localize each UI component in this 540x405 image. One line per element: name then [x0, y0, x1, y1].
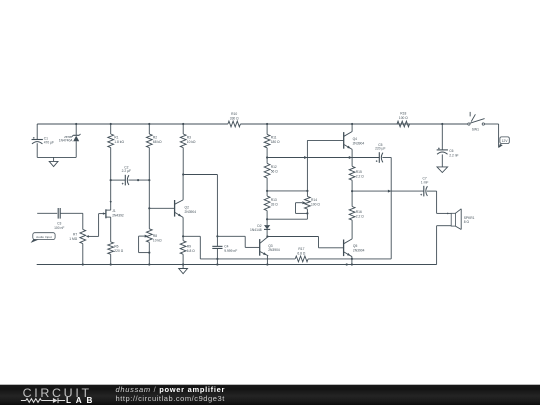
wire R2 down to R8	[148, 148, 150, 229]
diode D2 1N4148	[266, 219, 268, 225]
svg-text:8 Ω: 8 Ω	[464, 220, 470, 224]
switch SW1	[468, 123, 470, 125]
capacitor C1 (470 uF) branch	[36, 124, 38, 139]
flag Audio Input	[31, 239, 40, 243]
node dot R11/R12 junction	[266, 156, 268, 158]
wire C4 bottom to rail	[216, 249, 218, 265]
svg-text:68 kΩ: 68 kΩ	[153, 140, 162, 144]
capacitor C2 (2.2 uF)	[111, 179, 126, 181]
wire Q2 base	[149, 207, 174, 209]
speaker SPKR1 8 Ohm	[451, 213, 455, 226]
node dot R1 top	[110, 123, 112, 125]
svg-text:R11: R11	[271, 136, 277, 140]
resistor R17 (6.8 Ohm) on feedback line	[295, 256, 308, 262]
svg-text:6.8 Ω: 6.8 Ω	[297, 252, 305, 256]
svg-text:Q4: Q4	[353, 137, 358, 141]
node dot output tap R15/R16	[351, 190, 353, 192]
wire Q5 emitter down	[351, 257, 353, 265]
svg-text:100 nF: 100 nF	[54, 226, 64, 230]
node dot R3 top	[182, 123, 184, 125]
svg-text:12V: 12V	[502, 139, 509, 143]
node dot Q5 emitter/feedback	[351, 258, 353, 260]
node dot D2/Q3-collector node	[266, 235, 268, 237]
resistor R16 (2.2 Ohm)	[349, 207, 355, 221]
svg-text:R7: R7	[73, 232, 77, 236]
svg-text:2.2 Ω: 2.2 Ω	[356, 215, 364, 219]
ground symbol middle	[182, 265, 184, 269]
svg-text:2.2 Ω: 2.2 Ω	[356, 174, 364, 178]
node dot Q4 collector rail	[351, 123, 353, 125]
svg-text:2.2 µF: 2.2 µF	[122, 169, 131, 173]
svg-text:R1: R1	[114, 135, 118, 139]
resistor R6 (220 Ohm)	[108, 242, 114, 254]
svg-text:R9: R9	[187, 244, 191, 248]
svg-text:10 kΩ: 10 kΩ	[153, 238, 162, 242]
wire R11/R12 node to Q4 base vertical and C5	[267, 157, 379, 159]
svg-text:R6: R6	[114, 245, 118, 249]
svg-text:1N4148: 1N4148	[250, 228, 262, 232]
capacitor C5 (220 uF)	[378, 152, 380, 163]
svg-text:56 Ω: 56 Ω	[271, 170, 279, 174]
wire top supply rail middle segment	[240, 123, 467, 125]
transistor Q4 2N3904	[343, 132, 345, 149]
zener diode D1 1N4740A	[75, 124, 77, 135]
svg-text:100 Ω: 100 Ω	[311, 203, 320, 207]
capacitor C7 (1 mF)	[423, 186, 425, 197]
node dot R2/Q2-base junction	[148, 207, 150, 209]
resistor R12 (56 Ohm)	[264, 163, 270, 178]
svg-text:2N3904: 2N3904	[353, 141, 365, 145]
node dot C6 top rail	[441, 123, 443, 125]
ground symbol under C6	[441, 166, 443, 168]
wire Q4 collector to rail	[351, 124, 353, 132]
R8 wiper loop	[139, 235, 146, 237]
svg-text:R17: R17	[298, 247, 304, 251]
wire Q4 base	[307, 139, 343, 141]
svg-text:2.2 nF: 2.2 nF	[449, 153, 458, 157]
svg-text:R16: R16	[356, 210, 362, 214]
svg-text:D2: D2	[257, 224, 261, 228]
svg-text:C4: C4	[224, 244, 228, 248]
svg-text:1 MΩ: 1 MΩ	[69, 237, 77, 241]
svg-text:9.999 nF: 9.999 nF	[224, 249, 237, 253]
node dot zener-top rail	[75, 123, 77, 125]
node dot R13/D2 junction	[266, 218, 268, 220]
footer bar	[0, 385, 540, 405]
node dot R7 bottom rail	[82, 263, 84, 265]
resistor R10 (330 Ohm) on top rail	[228, 121, 241, 127]
svg-text:2N4392: 2N4392	[112, 214, 124, 218]
capacitor C6 (2.2 nF) branch	[441, 124, 443, 150]
node dot R14 loop bottom	[306, 212, 308, 214]
svg-text:C6: C6	[449, 149, 453, 153]
R14 wiper loop	[296, 202, 303, 204]
svg-text:R2: R2	[153, 135, 157, 139]
wire audio input to C3	[37, 212, 57, 214]
speaker plus marker dot	[447, 213, 449, 215]
wire top supply rail left segment	[37, 123, 228, 125]
svg-text:R18: R18	[400, 112, 406, 116]
svg-text:2N3904: 2N3904	[353, 249, 365, 253]
wire feedback from Q2 emitter	[183, 235, 200, 237]
node dot Q2-emitter/feedback	[182, 235, 184, 237]
wire C7 to speaker top	[436, 191, 438, 213]
capacitor C4 (9.999 nF)	[212, 245, 222, 247]
node dot R1/C2 junction	[110, 179, 112, 181]
svg-text:LAB: LAB	[66, 396, 97, 405]
wire R15 to R16 with output tap	[351, 180, 353, 206]
node dot Q3 emitter rail	[266, 263, 268, 265]
svg-text:http://circuitlab.com/c9dge3t: http://circuitlab.com/c9dge3t	[116, 394, 226, 403]
svg-text:180 Ω: 180 Ω	[271, 140, 280, 144]
svg-text:1.8 kΩ: 1.8 kΩ	[114, 140, 124, 144]
ground symbol under C1 loop	[53, 157, 55, 161]
wire speaker bottom return	[437, 225, 452, 227]
svg-text:Q5: Q5	[353, 244, 358, 248]
svg-text:100 Ω: 100 Ω	[399, 116, 408, 120]
svg-text:dhussam / power amplifier: dhussam / power amplifier	[116, 385, 226, 394]
svg-text:J1: J1	[112, 209, 116, 213]
svg-text:2N3904: 2N3904	[185, 210, 197, 214]
svg-text:220 Ω: 220 Ω	[114, 249, 123, 253]
potentiometer R8 (10 kOhm)	[146, 229, 152, 243]
resistor R1 (1.8 kOhm)	[110, 124, 112, 134]
node dot C2/R2 junction	[148, 179, 150, 181]
svg-text:SPKR1: SPKR1	[464, 216, 475, 220]
resistor R18 (100 Ohm) on top rail	[397, 121, 410, 127]
wire bottom rail	[37, 264, 437, 266]
voltage flag 12V	[498, 144, 502, 148]
transistor Q3 2N3904	[259, 239, 261, 256]
svg-text:470 µF: 470 µF	[44, 140, 54, 144]
node dot on C2 wire	[137, 179, 139, 181]
svg-text:R15: R15	[356, 170, 362, 174]
node dot on rail left of Q5	[346, 263, 348, 265]
svg-text:33 Ω: 33 Ω	[271, 202, 279, 206]
resistor R2 (68 kOhm)	[148, 124, 150, 134]
wire R12/R13 node to R14 top	[267, 190, 307, 192]
svg-text:6.8 Ω: 6.8 Ω	[187, 249, 195, 253]
resistor R15 (2.2 Ohm)	[349, 166, 355, 180]
wire feedback line to output node	[308, 258, 391, 260]
node dot R12/R13 junction	[266, 190, 268, 192]
node dot R8 bottom rail	[148, 263, 150, 265]
node dot R2 top	[148, 123, 150, 125]
svg-text:2N3904: 2N3904	[268, 248, 280, 252]
wire bottom of C1/zener loop	[37, 156, 76, 158]
wire D2 node to Q5 base	[267, 236, 318, 238]
wire Q4 emitter to R15	[351, 149, 353, 166]
node dot C4-top tap	[216, 235, 218, 237]
resistor R3 (10 kOhm)	[182, 124, 184, 134]
capacitor C3 (100 nF)	[57, 208, 59, 219]
svg-text:R12: R12	[271, 165, 277, 169]
wire Q2 emitter down to R9	[182, 217, 184, 240]
node dot R8 loop bottom	[148, 252, 150, 254]
node dot C4/bottom rail	[216, 263, 218, 265]
wire C5 to output vertical	[382, 157, 391, 159]
svg-text:10 kΩ: 10 kΩ	[187, 140, 196, 144]
JFET J1 2N4392	[105, 209, 107, 218]
node dot R11 top rail	[266, 123, 268, 125]
svg-text:R8: R8	[153, 234, 157, 238]
svg-text:330 Ω: 330 Ω	[230, 116, 239, 120]
svg-text:1N4740A: 1N4740A	[59, 139, 74, 143]
node dot C4/feedback line	[216, 258, 218, 260]
wire R1 down to JFET drain	[110, 148, 112, 211]
wire Q3 emitter to rail	[266, 256, 268, 265]
svg-text:C3: C3	[57, 222, 61, 226]
node dot R6 bottom rail	[110, 263, 112, 265]
wire R13/R14 bottoms	[267, 218, 307, 220]
wire output tap to C7 line	[352, 190, 424, 192]
wire J1 source to R6	[110, 217, 112, 242]
wire Q2 collector up	[182, 175, 184, 200]
node dot R3/Q2-collector/C4 junction	[182, 173, 184, 175]
wire R3 down to node	[182, 148, 184, 175]
svg-text:R3: R3	[187, 135, 191, 139]
svg-text:1 mF: 1 mF	[421, 180, 429, 184]
wire from SW1 to 12V flag	[484, 123, 498, 125]
transistor Q5 2N3904	[343, 240, 345, 257]
svg-text:Q3: Q3	[268, 244, 273, 248]
potentiometer R14 (100 Ohm)	[306, 140, 308, 196]
potentiometer R7 (1 MOhm)	[82, 213, 84, 229]
svg-text:R10: R10	[231, 112, 237, 116]
transistor Q2 2N3904	[174, 200, 176, 217]
wire R16 to Q5 collector	[351, 220, 353, 239]
wire C4 tap to Q3 base	[217, 235, 245, 237]
svg-text:R14: R14	[311, 198, 317, 202]
resistor R9 (6.8 Ohm)	[180, 241, 186, 255]
svg-text:Audio Input: Audio Input	[36, 235, 52, 239]
resistor R11 (180 Ohm)	[266, 124, 268, 134]
node dot Q5 emitter rail	[351, 263, 353, 265]
svg-text:R13: R13	[271, 198, 277, 202]
R7 wiper arm to J1 gate	[88, 235, 98, 237]
node dot R9 bottom rail	[182, 263, 184, 265]
svg-text:220 µF: 220 µF	[375, 146, 385, 150]
node dot at R14 top junction	[306, 190, 308, 192]
wire node to C4 top	[183, 174, 217, 176]
svg-text:SW1: SW1	[472, 128, 479, 132]
svg-text:C1: C1	[44, 136, 48, 140]
svg-text:Q2: Q2	[185, 206, 190, 210]
resistor R13 (33 Ohm)	[264, 196, 270, 211]
logo resistor-diode mark	[21, 398, 65, 403]
